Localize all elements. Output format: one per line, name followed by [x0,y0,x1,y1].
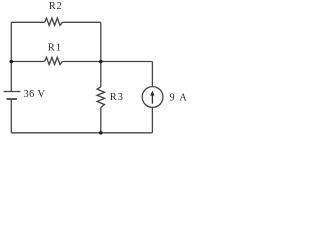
battery V1 short plate (-) [7,98,17,100]
svg-text:36 V: 36 V [24,89,46,100]
bottom node junction dot (R3 / bottom wire) [99,131,103,135]
wire: middle vertical lower (R3 to bottom node) [100,108,102,133]
wire: middle vertical upper (R2 branch down to node B) [100,22,102,61]
node B junction dot (middle vertical / R1 branch) [99,60,103,64]
wire: top branch right lead from R2 to middle vertical [62,21,100,23]
resistor R3 [97,87,104,108]
wire: bottom return [11,132,152,134]
wire: R1 branch left lead from node A [11,61,44,63]
resistor R2 [45,18,63,25]
wire: middle vertical from node B to R3 [100,62,102,87]
svg-text:R2: R2 [49,1,63,12]
wire: right vertical upper (to current source) [151,62,153,87]
battery V1 long plate (+) [4,91,21,93]
svg-text:R1: R1 [48,42,62,53]
current source U1 circle [142,87,163,108]
current source arrow [150,91,154,104]
wire: left vertical upper (battery + to top-left corner) [10,22,12,91]
svg-text:9A: 9A [170,93,188,104]
node A junction dot (left, R1 branch) [10,60,14,64]
svg-text:R3: R3 [110,92,124,103]
wire: top branch left lead to R2 [11,21,44,23]
wire: R1 branch right lead to right vertical [62,61,152,63]
resistor R1 [45,57,63,64]
wire: right vertical lower (current source to bottom wire) [151,107,153,132]
wire: left vertical lower (battery - to bottom-left corner) [10,99,12,133]
